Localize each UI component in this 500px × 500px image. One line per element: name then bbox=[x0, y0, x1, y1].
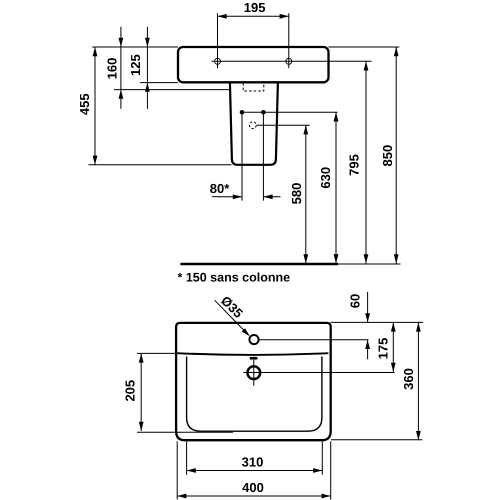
waste centreline bbox=[256, 124, 309, 126]
tap hole right cross bbox=[286, 58, 292, 64]
extension lines 310 bbox=[187, 441, 323, 475]
svg-text:* 150 sans colonne: * 150 sans colonne bbox=[178, 271, 291, 285]
svg-text:160: 160 bbox=[104, 58, 119, 80]
svg-text:630: 630 bbox=[318, 167, 333, 189]
basin outline plan view bbox=[176, 323, 331, 440]
dimension 795 bbox=[364, 61, 369, 263]
top extension line left bbox=[92, 46, 178, 48]
svg-text:360: 360 bbox=[401, 368, 416, 390]
floor line thick bbox=[182, 263, 338, 266]
top extension line plan bbox=[331, 321, 423, 323]
dimension 160 bbox=[114, 27, 230, 109]
dimension 580 bbox=[303, 125, 308, 263]
dimension 80* bbox=[212, 194, 281, 199]
svg-text:310: 310 bbox=[242, 454, 264, 469]
dimension 850 bbox=[394, 47, 399, 264]
dimension 400 bbox=[177, 494, 331, 499]
waste hole dashed circle bbox=[249, 122, 256, 129]
overflow slot bbox=[250, 357, 258, 360]
tap hole left cross bbox=[215, 58, 221, 64]
floor extension thin bbox=[337, 263, 401, 265]
basin body (side view) bbox=[178, 47, 329, 82]
dimension 175 bbox=[391, 322, 396, 372]
svg-text:795: 795 bbox=[346, 154, 361, 176]
svg-text:850: 850 bbox=[380, 145, 395, 167]
dimension 205 bbox=[137, 353, 233, 432]
dimension 360 bbox=[416, 322, 421, 440]
extension line right tap bbox=[288, 13, 290, 68]
svg-text:580: 580 bbox=[289, 183, 304, 205]
bottom extension line plan right bbox=[331, 439, 422, 441]
tap centreline extension plan bbox=[259, 339, 369, 341]
inner bowl plan view bbox=[187, 357, 322, 432]
dimension 630 bbox=[334, 112, 339, 263]
fixing bolt right dot bbox=[261, 110, 266, 115]
pedestal (semi-pedestal side view) bbox=[230, 82, 278, 165]
tap hole plan view bbox=[249, 335, 258, 344]
drain horizontal centreline bbox=[243, 372, 394, 374]
dimension 125 bbox=[140, 27, 178, 109]
fixing box (hidden dashed detail) bbox=[243, 83, 264, 91]
pedestal base extension line bbox=[89, 164, 232, 166]
dimension 455 bbox=[93, 47, 98, 165]
ledge line plan view bbox=[177, 353, 328, 355]
svg-text:455: 455 bbox=[77, 93, 92, 115]
extension lines 400 bbox=[177, 441, 331, 499]
svg-text:80*: 80* bbox=[210, 181, 230, 196]
svg-text:125: 125 bbox=[128, 54, 143, 76]
extension line bolt right bbox=[262, 112, 264, 200]
leader line O35 bbox=[215, 300, 250, 336]
svg-text:Ø35: Ø35 bbox=[218, 293, 246, 321]
svg-text:60: 60 bbox=[347, 294, 362, 308]
bolt centreline bbox=[242, 111, 338, 113]
svg-text:175: 175 bbox=[375, 338, 390, 360]
dimension 195 bbox=[218, 14, 289, 19]
svg-text:400: 400 bbox=[242, 480, 264, 495]
top extension line right bbox=[329, 46, 400, 48]
dimension 310 bbox=[187, 468, 323, 473]
fixing bolt left dot bbox=[240, 110, 245, 115]
extension line left tap bbox=[217, 13, 219, 68]
dimension 60 bbox=[365, 292, 370, 359]
drain plan view bbox=[247, 366, 260, 379]
drain vertical centreline bbox=[253, 360, 255, 386]
tap hole centreline (side view) bbox=[212, 60, 372, 62]
extension line bolt left bbox=[241, 112, 243, 200]
svg-text:195: 195 bbox=[244, 0, 266, 15]
svg-text:205: 205 bbox=[122, 380, 137, 402]
